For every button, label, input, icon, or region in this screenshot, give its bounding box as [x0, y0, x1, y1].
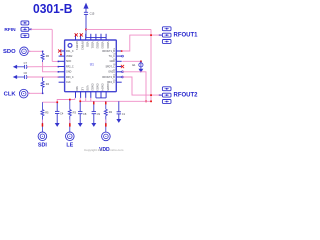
svg-text:RFOUT1: RFOUT1 — [174, 33, 199, 39]
IC U1 top pin labels — [75, 42, 110, 51]
svg-text:E1: E1 — [132, 63, 136, 67]
capacitor C6 — [25, 75, 27, 79]
ground arrow C6 — [14, 76, 25, 79]
capacitor C4 column — [55, 102, 59, 123]
svg-text:R2: R2 — [109, 110, 113, 114]
junction VDD — [85, 29, 87, 31]
svg-text:RFBY2: RFBY2 — [80, 42, 84, 51]
junction C4 top — [56, 101, 58, 103]
wire RFIN stub — [29, 28, 31, 30]
wire RFIN horizontal — [31, 28, 52, 30]
overlap mark LE wire — [69, 123, 71, 126]
wire R6 to pin5 — [43, 62, 59, 72]
junction right pin1 — [121, 50, 123, 52]
svg-text:R5: R5 — [45, 110, 49, 114]
junction LE rail — [69, 99, 71, 101]
junction pin5R rail — [145, 101, 147, 103]
ground arrow C4 — [55, 123, 59, 126]
IC U1 right pins — [116, 51, 121, 82]
svg-text:R6: R6 — [46, 54, 50, 58]
svg-text:SDI: SDI — [75, 86, 79, 91]
svg-text:TU_C: TU_C — [109, 55, 116, 58]
wire C6 to pin6 — [27, 76, 59, 78]
ground arrow C7 — [14, 65, 25, 68]
junction left pin2 — [60, 54, 62, 56]
junction pin3 — [58, 61, 60, 63]
wire pin3R to E1 — [122, 60, 141, 62]
svg-text:GND1: GND1 — [108, 71, 115, 74]
nc mark top pin1 — [75, 33, 78, 36]
testpoint LE — [66, 132, 75, 141]
svg-text:GND: GND — [110, 60, 116, 63]
svg-text:RF3_C: RF3_C — [66, 76, 74, 79]
junction rail C right — [150, 101, 152, 103]
IC U1 pin1 indicator — [68, 44, 72, 48]
svg-text:GND3: GND3 — [96, 83, 100, 91]
svg-text:C4: C4 — [60, 112, 64, 116]
resistor R2 VDD column — [104, 101, 107, 132]
wire vertical right rail — [150, 29, 152, 101]
svg-text:GND2: GND2 — [91, 83, 95, 91]
testpoint SDO — [20, 47, 29, 56]
IC U1 right pin bubbles — [122, 55, 124, 78]
svg-text:LE: LE — [80, 87, 84, 90]
nc mark top pin2 — [80, 33, 83, 36]
power symbol VDD top — [84, 4, 88, 13]
capacitor C10 column — [117, 101, 121, 119]
capacitor C7 — [25, 65, 27, 69]
nc mark left pin1 — [58, 49, 61, 52]
svg-text:CLK: CLK — [4, 92, 17, 98]
svg-text:LE: LE — [66, 142, 73, 148]
junction pin4 — [58, 66, 60, 68]
svg-text:RFIN: RFIN — [4, 27, 16, 33]
svg-text:C6: C6 — [24, 71, 28, 75]
svg-text:0301-B: 0301-B — [33, 1, 73, 16]
IC U1 left pin labels — [66, 50, 74, 84]
nc mark right pin4 — [121, 65, 124, 68]
svg-text:Copyright 2014: Copyright 2014 — [84, 148, 105, 152]
svg-text:U1: U1 — [90, 62, 94, 66]
overlap mark SDI wire — [42, 123, 44, 126]
wire VDD vertical to IC — [85, 14, 87, 37]
wire CLK stub — [28, 92, 30, 94]
ground arrow C9 — [92, 123, 96, 126]
testpoint CLK — [19, 89, 28, 98]
junction VDD rail — [105, 102, 106, 105]
overlap mark VDD wire — [105, 123, 107, 126]
wire CLK to R4 — [28, 92, 43, 94]
wire RFOUT1 stub — [160, 34, 162, 36]
connector J2 RFOUT1 — [162, 27, 171, 44]
wire pin6R to RFOUT2 — [122, 77, 160, 95]
wire segment VDD pink — [105, 120, 107, 123]
svg-text:CLK: CLK — [66, 81, 71, 84]
svg-text:RFOUT2_B: RFOUT2_B — [102, 76, 115, 79]
connector J1 RFIN — [21, 21, 29, 38]
junction R4 top — [42, 77, 44, 79]
IC U1 body — [65, 40, 117, 92]
resistor R6 — [41, 51, 44, 62]
svg-text:RFOUT2: RFOUT2 — [174, 93, 199, 99]
svg-text:C9: C9 — [97, 112, 101, 116]
wire riser pin2B — [79, 98, 81, 101]
wire RFOUT2 stub — [160, 94, 162, 96]
inductor E1 — [139, 61, 143, 72]
junction C8 top — [79, 100, 81, 102]
svg-text:VDD1: VDD1 — [91, 42, 95, 49]
wire pin1R to RFOUT1 — [122, 35, 161, 51]
svg-text:VDD3: VDD3 — [101, 42, 105, 49]
svg-text:VDD2: VDD2 — [66, 55, 73, 58]
svg-text:GND5: GND5 — [106, 83, 110, 91]
wire RFIN vertical — [51, 29, 53, 61]
svg-text:RFOUT1_B: RFOUT1_B — [102, 50, 115, 53]
wire VDD to RFOUT1 rail — [86, 28, 151, 30]
wire tie bottom pins 5-7 — [96, 97, 106, 99]
junction RFOUT2 mid wire — [150, 94, 152, 96]
IC U1 bottom pin labels — [75, 83, 110, 91]
svg-text:C7: C7 — [24, 61, 28, 65]
IC U1 right pin labels — [102, 50, 115, 84]
svg-text:RF1_C: RF1_C — [66, 50, 74, 53]
capacitor C8 column — [78, 101, 82, 123]
wire riser pin3B — [85, 98, 87, 101]
svg-text:SPDT_C: SPDT_C — [105, 65, 115, 68]
wire riser pin4B — [90, 98, 92, 101]
wire SDO to R6 — [28, 50, 42, 52]
ground arrow C8 — [78, 123, 82, 126]
junction C9 top — [93, 102, 94, 105]
wire pin5R to rail — [122, 72, 146, 102]
wire segment LE pink — [69, 120, 71, 123]
junction R6 top — [42, 51, 44, 53]
svg-text:SDI: SDI — [38, 142, 47, 148]
svg-text:C8: C8 — [83, 112, 87, 116]
svg-text:VSS: VSS — [85, 85, 89, 90]
IC U1 left pins — [59, 51, 65, 82]
wire SDO stub — [28, 50, 30, 52]
IC U1 right pin numbers — [113, 49, 115, 82]
connector J3 RFOUT2 — [162, 87, 171, 104]
junction R4 bottom — [42, 93, 44, 95]
wire VDD tie top pins — [86, 37, 106, 39]
junction pin6 — [58, 76, 60, 78]
svg-text:VDD4: VDD4 — [106, 42, 110, 49]
svg-text:SDO: SDO — [66, 60, 71, 63]
resistor R4 — [41, 77, 44, 93]
resistor R3 LE column — [68, 100, 71, 133]
svg-text:C15: C15 — [90, 12, 95, 16]
svg-text:R3: R3 — [73, 110, 77, 114]
ground arrow C10 — [117, 119, 121, 122]
svg-text:micro.com: micro.com — [110, 148, 124, 152]
junction pin5 — [58, 71, 60, 73]
wire RFIN to pin3 — [52, 60, 59, 62]
wire riser pin1B — [74, 98, 76, 100]
svg-text:SDO: SDO — [3, 49, 16, 55]
junction RFOUT1 rail — [150, 34, 152, 36]
testpoint SDI — [38, 132, 47, 141]
capacitor C9 column — [92, 101, 96, 123]
IC U1 bottom pins — [76, 92, 107, 98]
svg-text:VDD: VDD — [85, 42, 89, 48]
junction E1 — [140, 61, 142, 63]
capacitor C5 — [84, 12, 88, 14]
testpoint VDD — [102, 132, 111, 141]
svg-text:GND: GND — [66, 71, 72, 74]
svg-text:GND4: GND4 — [101, 83, 105, 91]
svg-text:RFBY1: RFBY1 — [75, 42, 79, 51]
wire C7 to pin4 — [27, 66, 59, 68]
svg-text:RF2_C: RF2_C — [66, 65, 74, 68]
wire bottom rail A — [42, 100, 75, 103]
svg-text:VDD2: VDD2 — [96, 42, 100, 49]
resistor R5 SDI column — [41, 102, 44, 132]
svg-text:R4: R4 — [46, 82, 50, 86]
wire segment SDI pink — [41, 120, 43, 123]
svg-text:C1: C1 — [122, 112, 126, 116]
IC U1 top pins — [76, 34, 107, 40]
wire bottom rail C — [80, 100, 151, 102]
